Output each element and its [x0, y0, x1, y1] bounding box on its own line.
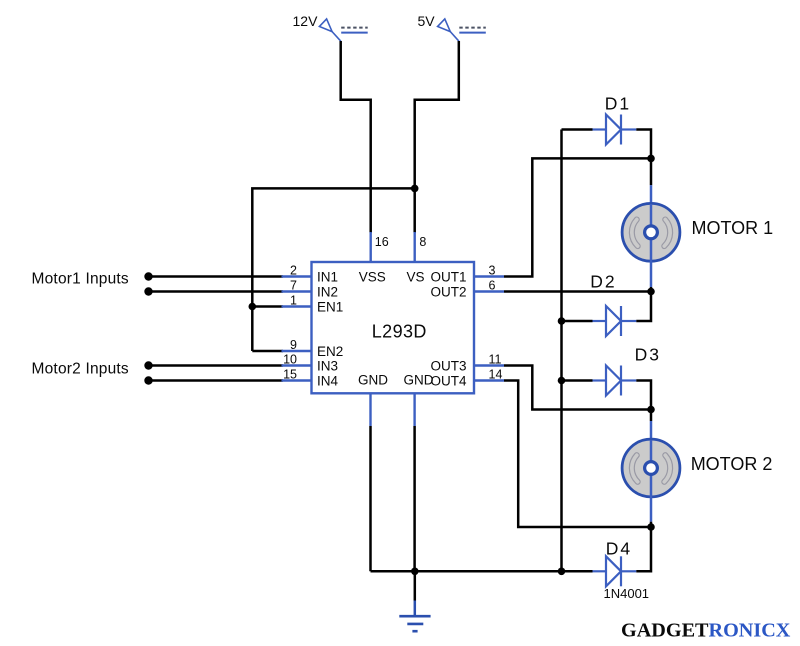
- junction OUT4/motor2 bottom/D4: [647, 523, 655, 531]
- svg-text:12V: 12V: [293, 13, 319, 29]
- node dot IN3 input: [144, 361, 152, 369]
- wire 5V net to EN1/EN2: [252, 188, 414, 351]
- svg-text:11: 11: [489, 352, 502, 366]
- node dot IN4 input: [144, 376, 152, 384]
- node dot IN1 input: [144, 272, 152, 280]
- svg-text:Motor2 Inputs: Motor2 Inputs: [32, 361, 129, 378]
- junction D3/OUT3/motor2 top: [647, 406, 655, 414]
- svg-text:VS: VS: [406, 269, 424, 284]
- svg-text:14: 14: [489, 367, 503, 381]
- wire IN4 input: [149, 379, 284, 382]
- motor M1: [622, 203, 680, 261]
- junction D2 anode on rail: [558, 317, 566, 325]
- svg-text:1N4001: 1N4001: [604, 586, 650, 601]
- svg-text:7: 7: [290, 278, 297, 292]
- svg-text:MOTOR 1: MOTOR 1: [692, 218, 774, 238]
- svg-text:EN2: EN2: [317, 344, 343, 359]
- wire motor2 top stub: [650, 410, 653, 422]
- node dot IN2 input: [144, 287, 152, 295]
- diode D1: [562, 115, 652, 159]
- power terminal 5V: [438, 19, 486, 41]
- svg-text:Motor1 Inputs: Motor1 Inputs: [32, 270, 129, 287]
- junction D3 anode on rail: [558, 377, 566, 385]
- svg-text:D2: D2: [590, 271, 616, 291]
- svg-text:IN1: IN1: [317, 269, 338, 284]
- wire ground rail horizontal: [371, 570, 593, 573]
- svg-text:IN2: IN2: [317, 284, 338, 299]
- wire IN3 input: [149, 364, 284, 367]
- svg-text:IN3: IN3: [317, 358, 338, 373]
- diode D3: [562, 366, 652, 410]
- svg-text:D4: D4: [606, 539, 632, 559]
- junction D1/OUT1/motor1 top: [647, 155, 655, 163]
- wire EN2: [252, 350, 283, 353]
- svg-text:6: 6: [489, 278, 496, 292]
- wire GND pin 2 down: [413, 426, 416, 571]
- svg-text:16: 16: [375, 235, 389, 249]
- svg-text:1: 1: [290, 293, 297, 307]
- wire 5V to VS pin 8: [415, 41, 459, 233]
- svg-text:MOTOR 2: MOTOR 2: [691, 454, 773, 474]
- svg-text:L293D: L293D: [372, 321, 427, 341]
- svg-text:IN4: IN4: [317, 373, 339, 388]
- svg-text:2: 2: [290, 263, 297, 277]
- wire OUT3 to D3/motor2 top: [504, 366, 651, 410]
- wire motor1 bottom stub: [650, 261, 653, 287]
- diode D4: [593, 527, 652, 586]
- svg-text:9: 9: [290, 338, 297, 352]
- junction D4 anode / rail bottom: [558, 568, 566, 576]
- wire GND pin 1 down: [369, 426, 372, 571]
- svg-text:15: 15: [283, 367, 297, 381]
- svg-text:D3: D3: [635, 345, 661, 365]
- junction ground node: [411, 568, 419, 576]
- svg-text:OUT2: OUT2: [430, 284, 466, 299]
- svg-text:5V: 5V: [418, 13, 436, 29]
- wire OUT2 to motor1 bottom: [504, 290, 651, 293]
- ground: [399, 571, 430, 631]
- svg-text:OUT4: OUT4: [430, 373, 466, 388]
- wire OUT1 to D1/motor1 top: [504, 158, 651, 276]
- svg-text:8: 8: [419, 235, 426, 249]
- svg-text:EN1: EN1: [317, 299, 343, 314]
- wire motor2 bottom stub: [650, 497, 653, 522]
- IC U1 L293D: [282, 232, 505, 426]
- wire left rail (D1..D4 anodes): [560, 130, 563, 572]
- junction node EN1: [249, 303, 257, 311]
- motor M2: [622, 439, 680, 497]
- wire motor1 top stub: [650, 158, 653, 185]
- svg-text:VSS: VSS: [359, 269, 386, 284]
- svg-text:OUT1: OUT1: [430, 269, 466, 284]
- svg-text:OUT3: OUT3: [430, 358, 466, 373]
- svg-text:10: 10: [283, 352, 297, 366]
- junction OUT2/motor1 bottom/D2: [647, 288, 655, 296]
- junction on 5V wire: [411, 185, 419, 193]
- wire IN2 input: [149, 290, 284, 293]
- svg-text:D1: D1: [605, 94, 631, 114]
- power terminal 12V: [319, 19, 367, 41]
- wire 12V to VSS pin 16: [341, 41, 371, 233]
- wire IN1 input: [149, 275, 284, 278]
- diode D2: [562, 292, 652, 337]
- svg-text:GND: GND: [358, 373, 388, 388]
- wire OUT4 to motor2 bottom: [504, 381, 651, 528]
- svg-text:GND: GND: [404, 373, 434, 388]
- svg-text:3: 3: [489, 263, 496, 277]
- wire EN1: [252, 305, 283, 308]
- svg-text:GADGETRONICX: GADGETRONICX: [621, 619, 791, 641]
